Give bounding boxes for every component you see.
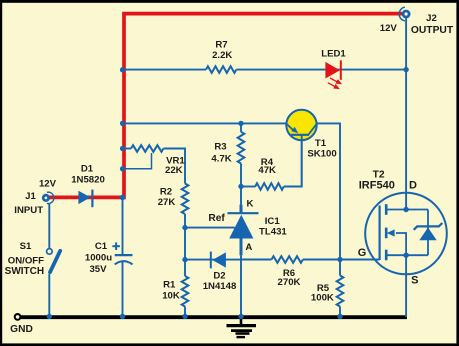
svg-text:IC1: IC1 — [265, 216, 281, 227]
svg-text:22K: 22K — [165, 165, 183, 176]
svg-text:G: G — [358, 247, 367, 259]
svg-text:D: D — [409, 179, 417, 191]
svg-text:GND: GND — [10, 324, 33, 335]
svg-text:27K: 27K — [158, 197, 176, 208]
svg-text:R7: R7 — [215, 40, 227, 51]
svg-text:1N5820: 1N5820 — [71, 174, 105, 185]
svg-text:OUTPUT: OUTPUT — [411, 25, 454, 36]
svg-text:2.2K: 2.2K — [212, 50, 232, 61]
svg-text:S: S — [411, 275, 418, 287]
svg-text:47K: 47K — [258, 165, 276, 176]
svg-text:LED1: LED1 — [321, 49, 346, 60]
svg-text:J1: J1 — [25, 191, 36, 202]
svg-text:A: A — [245, 242, 252, 253]
svg-text:INPUT: INPUT — [14, 205, 43, 216]
svg-text:1000u: 1000u — [85, 252, 112, 263]
svg-text:D1: D1 — [81, 163, 94, 174]
svg-text:R2: R2 — [160, 186, 172, 197]
svg-text:4.7K: 4.7K — [211, 154, 231, 165]
svg-text:C1: C1 — [95, 241, 108, 252]
svg-text:K: K — [247, 199, 254, 210]
svg-text:R1: R1 — [163, 279, 176, 290]
svg-text:D2: D2 — [213, 271, 225, 282]
svg-text:1N4148: 1N4148 — [203, 281, 237, 292]
svg-text:J2: J2 — [426, 13, 437, 24]
svg-text:R3: R3 — [214, 142, 226, 153]
svg-text:IRF540: IRF540 — [359, 180, 395, 192]
svg-text:Ref: Ref — [208, 213, 225, 224]
svg-text:S1: S1 — [20, 241, 32, 252]
svg-text:SWITCH: SWITCH — [5, 266, 44, 277]
svg-text:TL431: TL431 — [259, 227, 287, 238]
svg-text:12V: 12V — [380, 23, 398, 34]
svg-text:270K: 270K — [278, 277, 301, 288]
svg-text:12V: 12V — [39, 179, 57, 190]
svg-text:100K: 100K — [311, 292, 334, 303]
svg-text:ON/OFF: ON/OFF — [8, 256, 44, 267]
svg-text:T1: T1 — [315, 138, 327, 149]
svg-text:35V: 35V — [89, 264, 107, 275]
svg-text:SK100: SK100 — [307, 149, 336, 160]
svg-text:10K: 10K — [162, 291, 180, 302]
